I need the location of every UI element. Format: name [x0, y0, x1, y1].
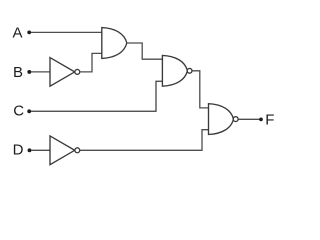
wire B to inverter U2: [31, 71, 50, 73]
svg-text:D: D: [13, 142, 24, 159]
svg-text:F: F: [265, 112, 274, 129]
input C terminal dot: [27, 109, 31, 113]
input A terminal dot: [27, 31, 31, 35]
wire D to inverter U4: [31, 149, 50, 151]
node F terminal dot: [259, 118, 263, 122]
wire A to AND gate U1 top input: [31, 31, 102, 33]
input B terminal dot: [27, 70, 31, 74]
wire NAND gate U3 output to NAND gate U5 top input: [192, 71, 209, 108]
svg-text:B: B: [13, 64, 23, 81]
NAND gate U3: [162, 55, 192, 86]
NAND gate U5: [209, 104, 239, 135]
input D terminal dot: [28, 148, 32, 152]
inverter U4 (NOT D): [50, 136, 80, 165]
svg-text:A: A: [13, 25, 23, 42]
inverter U2 (NOT B): [50, 58, 80, 87]
wire inverter U4 output to NAND gate U5 bottom input: [80, 130, 209, 151]
wire NAND gate U5 output to node F: [238, 118, 259, 120]
wire C to NAND gate U3 bottom input: [31, 81, 162, 111]
AND gate U1: [102, 28, 127, 59]
wire AND gate U1 output to NAND gate U3 top input: [127, 43, 163, 59]
wire inverter U2 output to AND gate U1 bottom input: [80, 53, 102, 72]
svg-text:C: C: [13, 103, 24, 120]
